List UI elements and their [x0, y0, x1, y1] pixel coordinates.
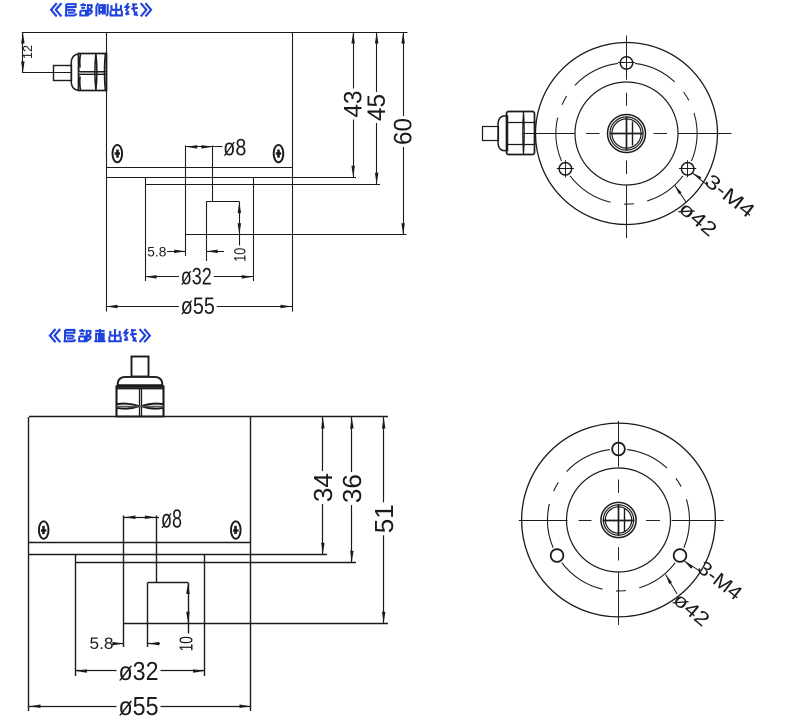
- svg-text:12: 12: [20, 45, 35, 59]
- svg-text:34: 34: [308, 473, 338, 502]
- svg-text:ø8: ø8: [161, 503, 182, 533]
- svg-text:10: 10: [176, 636, 196, 651]
- svg-text:45: 45: [363, 94, 391, 121]
- svg-text:5.8: 5.8: [90, 634, 114, 653]
- svg-text:ø32: ø32: [181, 263, 212, 290]
- svg-text:ø55: ø55: [119, 691, 159, 720]
- svg-text:ø8: ø8: [223, 134, 246, 161]
- svg-text:ø55: ø55: [181, 293, 215, 320]
- svg-text:ø32: ø32: [119, 656, 159, 686]
- svg-text:10: 10: [230, 248, 249, 262]
- svg-text:60: 60: [389, 118, 417, 145]
- svg-text:36: 36: [337, 474, 367, 503]
- svg-text:5.8: 5.8: [147, 243, 166, 259]
- svg-text:51: 51: [369, 504, 399, 533]
